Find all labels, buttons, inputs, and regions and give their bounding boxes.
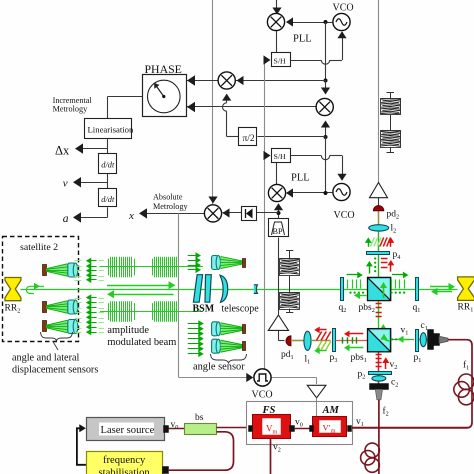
- svg-text:Metrology: Metrology: [153, 202, 188, 211]
- svg-text:v: v: [63, 178, 68, 190]
- svg-text:Laser source: Laser source: [101, 425, 155, 436]
- svg-text:AM: AM: [322, 405, 340, 416]
- svg-text:angle and lateral: angle and lateral: [12, 353, 79, 364]
- svg-text:Δx: Δx: [55, 144, 70, 158]
- svg-text:satellite 2: satellite 2: [20, 242, 58, 253]
- svg-text:d/dt: d/dt: [101, 195, 115, 204]
- svg-text:frequency: frequency: [103, 455, 146, 466]
- svg-text:telescope: telescope: [222, 304, 260, 315]
- svg-text:amplitude: amplitude: [107, 325, 149, 336]
- svg-text:Metrology: Metrology: [53, 105, 88, 114]
- svg-text:PLL: PLL: [293, 34, 312, 45]
- svg-text:Absolute: Absolute: [153, 193, 183, 202]
- svg-text:S/H: S/H: [274, 57, 287, 66]
- svg-text:S/H: S/H: [274, 152, 287, 161]
- svg-text:BP: BP: [273, 227, 283, 236]
- svg-text:VCO: VCO: [252, 390, 273, 401]
- svg-text:angle sensor: angle sensor: [193, 362, 245, 373]
- svg-text:π/2: π/2: [243, 134, 255, 144]
- svg-text:bs: bs: [195, 413, 204, 423]
- svg-text:PHASE: PHASE: [145, 62, 182, 76]
- svg-text:Linearisation: Linearisation: [88, 125, 134, 135]
- svg-text:VCO: VCO: [333, 3, 354, 14]
- svg-text:BSM: BSM: [193, 304, 215, 315]
- svg-text:modulated beam: modulated beam: [107, 337, 176, 348]
- svg-text:FS: FS: [262, 405, 276, 416]
- svg-text:x: x: [128, 210, 134, 222]
- svg-text:VCO: VCO: [334, 210, 355, 221]
- svg-text:a: a: [63, 213, 69, 225]
- svg-text:displacement sensors: displacement sensors: [12, 365, 98, 376]
- svg-text:PLL: PLL: [291, 173, 310, 184]
- svg-text:d/dt: d/dt: [101, 161, 115, 170]
- svg-text:stabilisation: stabilisation: [99, 468, 151, 474]
